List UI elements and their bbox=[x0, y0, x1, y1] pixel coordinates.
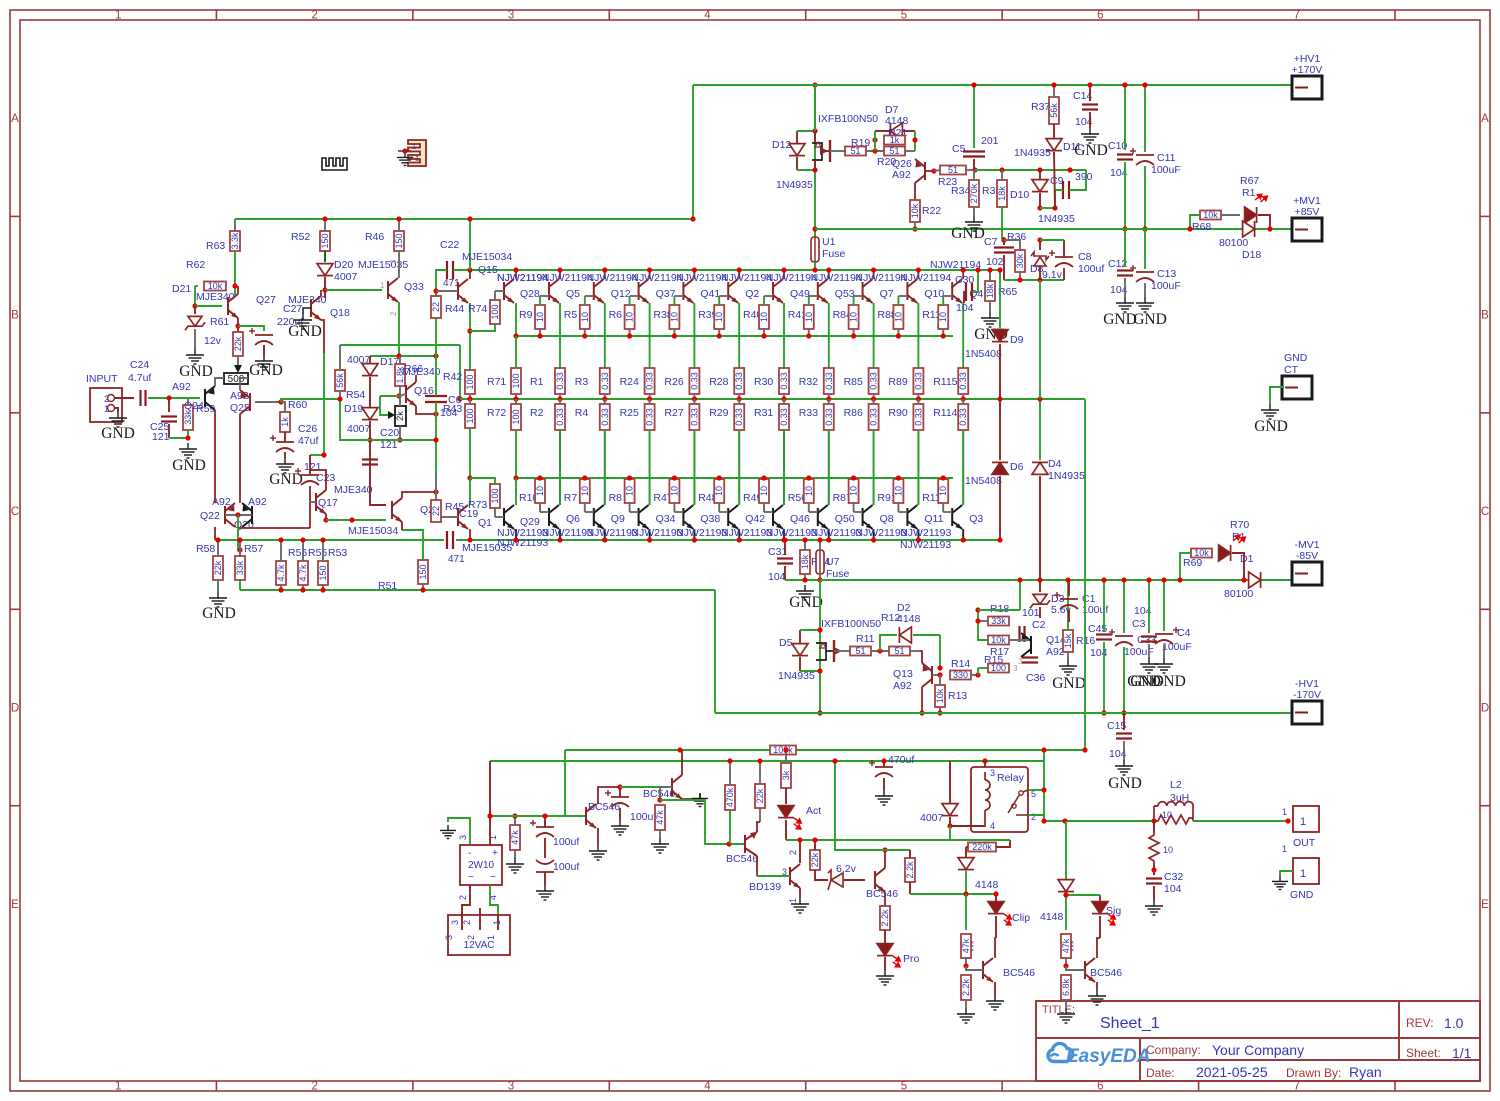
wire D17 top link y356 bbox=[370, 355, 436, 357]
svg-text:-170V: -170V bbox=[1293, 689, 1321, 701]
diode 80100 negative rail bbox=[1249, 572, 1261, 588]
svg-text:NJW21194: NJW21194 bbox=[542, 272, 593, 284]
svg-text:A92: A92 bbox=[893, 680, 912, 692]
wire Q50 collector bbox=[828, 529, 830, 540]
svg-text:R73: R73 bbox=[468, 499, 487, 511]
wire Q41 base stub bbox=[674, 295, 683, 297]
svg-text:47k: 47k bbox=[961, 938, 971, 953]
svg-text:Fuse: Fuse bbox=[826, 568, 850, 580]
svg-text:R34: R34 bbox=[951, 185, 970, 197]
wire node up bbox=[874, 131, 876, 151]
svg-text:Q37: Q37 bbox=[656, 288, 676, 300]
ground bbox=[981, 312, 999, 327]
svg-text:0.33: 0.33 bbox=[645, 408, 655, 426]
wire C8 top link bbox=[1040, 239, 1064, 241]
svg-text:100: 100 bbox=[465, 374, 475, 389]
svg-text:Q41: Q41 bbox=[700, 288, 720, 300]
wire Q53 emitter bbox=[828, 303, 830, 368]
svg-text:10: 10 bbox=[1162, 810, 1172, 820]
ground of R34 bbox=[973, 207, 975, 216]
ground of D21 bbox=[194, 329, 196, 349]
svg-text:R37: R37 bbox=[1031, 101, 1050, 113]
svg-text:Q9: Q9 bbox=[611, 513, 625, 525]
wire C9 left bbox=[1055, 190, 1063, 208]
svg-text:NJW21193: NJW21193 bbox=[676, 527, 727, 539]
wire Q29 collector bbox=[515, 529, 517, 540]
svg-text:100: 100 bbox=[490, 304, 500, 319]
wire BC546 clip emitter bbox=[994, 982, 996, 995]
svg-text:R29: R29 bbox=[709, 407, 728, 419]
svg-text:471: 471 bbox=[448, 554, 465, 565]
wire R23 to C5 node bbox=[966, 169, 975, 171]
svg-text:7: 7 bbox=[1294, 1081, 1300, 1093]
wire Q9 base stub bbox=[585, 511, 594, 513]
svg-text:2: 2 bbox=[1031, 812, 1036, 822]
svg-text:3.3k: 3.3k bbox=[230, 232, 240, 250]
wire y840 bbox=[786, 839, 950, 841]
svg-text:100uF: 100uF bbox=[1151, 164, 1181, 176]
wire D4 down to -85 rail bbox=[1039, 476, 1041, 580]
wire fuse to top bus bbox=[814, 262, 816, 270]
svg-text:1: 1 bbox=[492, 920, 502, 925]
svg-text:A92: A92 bbox=[172, 381, 191, 393]
svg-text:0.33: 0.33 bbox=[734, 408, 744, 426]
resistor R 3k bbox=[781, 763, 791, 788]
svg-text:0.33: 0.33 bbox=[869, 372, 879, 390]
svg-text:1: 1 bbox=[1282, 807, 1287, 817]
svg-text:33k: 33k bbox=[235, 560, 245, 575]
svg-text:R27: R27 bbox=[664, 407, 683, 419]
svg-text:10: 10 bbox=[804, 486, 814, 496]
wire gate return / +MV rail left part bbox=[815, 228, 1086, 230]
svg-text:10: 10 bbox=[938, 312, 948, 322]
wire Q23 collector link y440 bbox=[370, 439, 436, 441]
svg-text:Q8: Q8 bbox=[880, 513, 894, 525]
svg-text:22k: 22k bbox=[233, 336, 243, 351]
ground bbox=[1115, 760, 1133, 775]
svg-text:A92: A92 bbox=[248, 496, 267, 508]
svg-text:2: 2 bbox=[466, 935, 476, 940]
wire NPN base bus bbox=[516, 335, 953, 337]
svg-text:C: C bbox=[1481, 506, 1489, 518]
svg-text:4007: 4007 bbox=[920, 812, 944, 824]
svg-text:150: 150 bbox=[320, 233, 330, 248]
svg-text:104: 104 bbox=[1164, 883, 1182, 895]
wire R57 to y590 bus bbox=[239, 580, 241, 590]
wire Q38 emitter bbox=[693, 430, 695, 505]
svg-text:REV:: REV: bbox=[1406, 1016, 1434, 1030]
wire R54 column down to y440 bbox=[340, 399, 370, 440]
svg-text:104: 104 bbox=[768, 571, 786, 583]
svg-text:Q6: Q6 bbox=[566, 513, 580, 525]
wire C22 right bbox=[453, 269, 470, 271]
wire NPN collector top bus bbox=[470, 269, 1000, 271]
wire R74 bottom bbox=[470, 324, 495, 331]
svg-text:2: 2 bbox=[311, 1081, 317, 1093]
wire Q25 collector to Q20 emitter bbox=[239, 414, 241, 503]
svg-text:R42: R42 bbox=[443, 371, 462, 383]
wire Q18 col bbox=[324, 290, 326, 298]
wire Q38 base stub bbox=[674, 511, 683, 513]
svg-text:18k: 18k bbox=[800, 554, 810, 569]
wire 2W10 pins down to 12VAC bbox=[462, 885, 470, 915]
wire C6 column R44 bbox=[435, 318, 437, 396]
wire Q37 collector bbox=[649, 270, 651, 279]
svg-text:U7: U7 bbox=[826, 556, 840, 568]
svg-text:2.2k: 2.2k bbox=[905, 861, 915, 879]
ground bbox=[1136, 297, 1154, 312]
svg-text:R13: R13 bbox=[948, 690, 967, 702]
svg-text:R52: R52 bbox=[291, 231, 310, 243]
wire C9 right bbox=[1069, 170, 1086, 190]
wire R43 bottom to Q1 emitter bbox=[469, 428, 471, 478]
svg-text:R6: R6 bbox=[609, 309, 623, 321]
svg-text:R67: R67 bbox=[1240, 175, 1259, 187]
svg-text:NJW21194: NJW21194 bbox=[721, 272, 772, 284]
svg-text:470uf: 470uf bbox=[888, 754, 914, 766]
svg-text:R115: R115 bbox=[933, 376, 957, 388]
svg-text:+: + bbox=[492, 848, 498, 859]
svg-text:GND: GND bbox=[172, 457, 206, 474]
svg-text:150: 150 bbox=[418, 564, 428, 579]
wire Q9 emitter bbox=[604, 430, 606, 505]
wire BC546#2 emitter to gnd bbox=[682, 793, 700, 799]
svg-text:R55: R55 bbox=[308, 547, 327, 559]
ground bbox=[179, 443, 197, 458]
svg-text:GND: GND bbox=[1074, 142, 1108, 159]
wire C23 top to VAS node bbox=[310, 454, 324, 456]
svg-text:C8: C8 bbox=[1078, 251, 1092, 263]
ground bbox=[875, 790, 893, 805]
svg-text:R90: R90 bbox=[888, 407, 907, 419]
svg-text:10: 10 bbox=[535, 312, 545, 322]
svg-text:10: 10 bbox=[669, 312, 679, 322]
svg-text:R22: R22 bbox=[922, 205, 941, 217]
wire Q10 collector bbox=[917, 270, 919, 279]
svg-text:R8: R8 bbox=[609, 492, 623, 504]
svg-text:10: 10 bbox=[714, 486, 724, 496]
wire y816 bbox=[490, 815, 586, 817]
svg-text:4: 4 bbox=[990, 821, 995, 831]
svg-text:10: 10 bbox=[893, 312, 903, 322]
svg-text:R5: R5 bbox=[564, 309, 578, 321]
wire Q6 collector bbox=[559, 529, 561, 540]
ground bbox=[611, 820, 629, 835]
svg-text:C9: C9 bbox=[1050, 175, 1064, 187]
svg-text:INPUT: INPUT bbox=[86, 373, 118, 385]
wire Q13 base right bbox=[932, 674, 940, 676]
svg-text:R26: R26 bbox=[664, 376, 683, 388]
wire R42 to mid rail bbox=[469, 394, 471, 399]
svg-text:R14: R14 bbox=[951, 658, 970, 670]
svg-text:80100: 80100 bbox=[1224, 588, 1253, 600]
svg-text:C26: C26 bbox=[298, 423, 317, 435]
wire PNP collector bottom bus bbox=[465, 539, 1000, 541]
wire 2k wiper loop bbox=[380, 395, 399, 397]
svg-text:A: A bbox=[11, 113, 19, 125]
svg-text:R54: R54 bbox=[346, 389, 365, 401]
svg-text:Date:: Date: bbox=[1146, 1066, 1175, 1080]
svg-text:R74: R74 bbox=[468, 303, 487, 315]
svg-text:201: 201 bbox=[981, 135, 999, 147]
ground bbox=[294, 314, 312, 329]
svg-text:R62: R62 bbox=[186, 259, 205, 271]
wire 2.2k down to y894 bbox=[909, 882, 911, 894]
resistor R 2.2k clip bbox=[961, 975, 971, 1000]
wire BD139 emitter gnd bbox=[799, 888, 801, 898]
svg-text:Drawn By:: Drawn By: bbox=[1286, 1066, 1341, 1080]
ground of 2.2k clip bbox=[965, 1000, 967, 1008]
svg-text:D10: D10 bbox=[1010, 189, 1029, 201]
svg-text:NJW21193: NJW21193 bbox=[811, 527, 862, 539]
ground of Q18 base bbox=[303, 308, 311, 314]
wire mid-rail start bbox=[280, 398, 282, 402]
svg-text:2: 2 bbox=[389, 311, 398, 316]
svg-text:Q38: Q38 bbox=[700, 513, 720, 525]
wire CT to ground bbox=[1270, 387, 1284, 404]
wire Q26 emitter up bbox=[905, 150, 915, 152]
ground bbox=[440, 825, 456, 839]
wire BC546#4 emitter down bbox=[884, 892, 886, 906]
svg-text:0.33: 0.33 bbox=[779, 372, 789, 390]
svg-text:10k: 10k bbox=[1194, 548, 1209, 558]
svg-text:1N5408: 1N5408 bbox=[965, 348, 1002, 360]
wire y750 horizontal bbox=[565, 749, 1085, 751]
wire R61 to trimmer wiper bbox=[237, 356, 239, 367]
wire Q17 base stub bbox=[310, 501, 316, 503]
wire R69 left bbox=[1180, 553, 1191, 580]
wire D12 top/bottom to mosfet bbox=[797, 130, 815, 132]
wire Q28 base stub bbox=[495, 290, 504, 292]
svg-text:R57: R57 bbox=[244, 543, 263, 555]
svg-text:2.2k: 2.2k bbox=[961, 978, 971, 996]
svg-text:R36: R36 bbox=[1007, 231, 1026, 243]
ground of C26 bbox=[284, 452, 286, 458]
svg-text:R3: R3 bbox=[575, 376, 589, 388]
svg-text:OUT: OUT bbox=[1293, 837, 1316, 849]
wire Q28 collector bbox=[515, 270, 517, 279]
svg-text:18k: 18k bbox=[985, 283, 995, 298]
wire Q42 base stub bbox=[719, 511, 728, 513]
wire output mid rail left segment bbox=[281, 398, 340, 400]
wire R11 to node bbox=[871, 650, 889, 652]
wire Q38 collector bbox=[693, 529, 695, 540]
ground bbox=[536, 885, 554, 900]
wire C20 bottom to Q23 base bbox=[370, 470, 386, 505]
resistor R 22k vas bbox=[810, 850, 820, 870]
wire BC546#4 collector up bbox=[884, 850, 886, 868]
wire Q20 collector down bbox=[240, 527, 310, 528]
wire Q28 emitter to base bus bbox=[515, 303, 517, 336]
wire R74 top to Q28 base bbox=[494, 291, 496, 300]
wire Q53 collector bbox=[828, 270, 830, 279]
svg-text:1: 1 bbox=[115, 10, 121, 22]
wire Q27 collector bbox=[237, 286, 239, 294]
wire C24 to node bbox=[148, 397, 200, 399]
svg-text:R72: R72 bbox=[487, 407, 506, 419]
wire C30 right up to bus bbox=[972, 270, 978, 292]
svg-text:Q53: Q53 bbox=[835, 288, 855, 300]
svg-text:10k: 10k bbox=[910, 203, 920, 218]
wire Q8 base stub bbox=[854, 511, 863, 513]
wire Q27 emitter to node bbox=[237, 318, 239, 332]
svg-text:22k: 22k bbox=[213, 560, 223, 575]
wire D2 right down bbox=[939, 635, 941, 668]
resistor R 22k bottom bbox=[755, 784, 765, 808]
svg-text:330: 330 bbox=[953, 670, 968, 680]
svg-text:R33: R33 bbox=[799, 407, 818, 419]
svg-text:IXFB100N50: IXFB100N50 bbox=[818, 113, 878, 125]
svg-text:R4: R4 bbox=[575, 407, 589, 419]
svg-text:56k: 56k bbox=[1049, 103, 1059, 118]
svg-text:10: 10 bbox=[625, 486, 635, 496]
svg-text:Act: Act bbox=[806, 805, 821, 817]
svg-text:1: 1 bbox=[486, 935, 496, 940]
svg-text:R25: R25 bbox=[620, 407, 639, 419]
wire L2 to OUT bbox=[1193, 820, 1288, 822]
wire R21/D7 right join bbox=[914, 131, 916, 151]
svg-text:~: ~ bbox=[468, 872, 474, 883]
svg-text:+170V: +170V bbox=[1292, 64, 1323, 76]
wire Q29 emitter to base bus bbox=[515, 478, 517, 505]
svg-text:C4: C4 bbox=[1177, 627, 1191, 639]
wire Q15 emitter down bbox=[469, 303, 471, 370]
svg-text:3: 3 bbox=[508, 1081, 514, 1093]
svg-text:R61: R61 bbox=[210, 316, 229, 328]
wire Q33 collector bbox=[398, 251, 400, 278]
svg-text:GND: GND bbox=[789, 594, 823, 611]
svg-text:Relay: Relay bbox=[997, 772, 1025, 784]
svg-text:R60: R60 bbox=[288, 399, 307, 411]
svg-text:NJW21194: NJW21194 bbox=[930, 259, 981, 271]
svg-text:D: D bbox=[1481, 703, 1489, 715]
svg-text:C: C bbox=[11, 506, 19, 518]
svg-text:1: 1 bbox=[415, 154, 419, 163]
wire Q37 emitter bbox=[649, 303, 651, 368]
svg-text:1k: 1k bbox=[890, 135, 900, 145]
wire D18 right join bbox=[1258, 215, 1270, 229]
svg-text:Q13: Q13 bbox=[893, 668, 913, 680]
svg-text:R44: R44 bbox=[445, 303, 464, 315]
wire right drop x460 to mid rail bbox=[459, 345, 461, 399]
svg-text:3k: 3k bbox=[781, 770, 791, 780]
wire LED right bbox=[1232, 553, 1244, 580]
ground bbox=[651, 838, 669, 853]
svg-text:GND: GND bbox=[288, 323, 322, 340]
wire D20 to node bbox=[324, 277, 326, 290]
svg-text:100uF: 100uF bbox=[1162, 641, 1192, 653]
svg-text:150: 150 bbox=[394, 233, 404, 248]
svg-text:R28: R28 bbox=[709, 376, 728, 388]
wire Q23 emitter to R51 bbox=[401, 522, 403, 530]
svg-text:100: 100 bbox=[991, 663, 1006, 673]
svg-text:0.33: 0.33 bbox=[600, 408, 610, 426]
wire R63 to node bbox=[234, 251, 236, 295]
wire R73 top bbox=[470, 478, 495, 484]
resistor R 2.2k act2 bbox=[905, 858, 915, 882]
svg-text:Q42: Q42 bbox=[745, 513, 765, 525]
svg-text:R86: R86 bbox=[844, 407, 863, 419]
wire y280 down to D4 column bbox=[1039, 280, 1041, 399]
svg-text:GND: GND bbox=[202, 605, 236, 622]
wire R19 to node bbox=[866, 150, 884, 152]
svg-text:R45: R45 bbox=[445, 501, 464, 513]
svg-text:0.33: 0.33 bbox=[958, 408, 968, 426]
wire Q22-Q20 base join bbox=[225, 514, 252, 516]
svg-text:C3: C3 bbox=[1132, 618, 1146, 630]
svg-text:R11: R11 bbox=[856, 633, 875, 645]
wire Q42 collector bbox=[738, 529, 740, 540]
wire 47k to base node bbox=[965, 958, 967, 966]
wire Q34 base stub bbox=[630, 511, 639, 513]
svg-text:~: ~ bbox=[490, 872, 496, 883]
wire relay coil bottom bbox=[950, 825, 985, 827]
svg-text:3: 3 bbox=[990, 768, 995, 778]
svg-text:47k: 47k bbox=[1061, 938, 1071, 953]
svg-text:0.33: 0.33 bbox=[734, 372, 744, 390]
wire y850 wire bbox=[835, 761, 910, 850]
svg-text:7: 7 bbox=[1294, 10, 1300, 22]
ground bbox=[1272, 876, 1288, 890]
svg-text:10: 10 bbox=[1163, 845, 1173, 855]
svg-text:C7: C7 bbox=[984, 236, 998, 248]
bridge 2W10 bbox=[460, 845, 502, 885]
svg-text:100uf: 100uf bbox=[553, 836, 579, 848]
wire Q4 base stub bbox=[943, 295, 952, 297]
svg-text:Q28: Q28 bbox=[520, 288, 540, 300]
title block bbox=[1036, 1001, 1480, 1081]
wire Q17 node to Q23 bbox=[326, 519, 386, 521]
wire BC546 sig emitter bbox=[1096, 982, 1098, 990]
svg-text:3: 3 bbox=[450, 920, 460, 925]
wire Q29 base stub bbox=[495, 516, 504, 518]
svg-text:D6: D6 bbox=[1010, 461, 1024, 473]
wire output mid rail bbox=[460, 398, 1085, 400]
svg-text:6: 6 bbox=[1097, 10, 1103, 22]
svg-text:NJW21194: NJW21194 bbox=[900, 272, 951, 284]
ground bbox=[209, 592, 227, 607]
ground of INPUT shield bbox=[114, 408, 118, 412]
wire BC546#2 collector up to y750 bbox=[681, 750, 683, 775]
wire Q49 emitter bbox=[783, 303, 785, 368]
wire Q4 collector bbox=[962, 270, 964, 279]
wire Q11 base stub bbox=[898, 511, 907, 513]
wire Q46 emitter bbox=[783, 430, 785, 505]
svg-text:MJE15034: MJE15034 bbox=[348, 525, 398, 537]
svg-text:0.33: 0.33 bbox=[645, 372, 655, 390]
svg-text:GND: GND bbox=[1290, 889, 1314, 901]
svg-text:GND: GND bbox=[1130, 673, 1164, 690]
svg-text:47k: 47k bbox=[655, 810, 665, 825]
svg-text:Q17: Q17 bbox=[318, 497, 338, 509]
svg-text:R69: R69 bbox=[1183, 557, 1202, 569]
wire R68 left leg bbox=[1190, 215, 1200, 229]
svg-text:121: 121 bbox=[380, 439, 398, 451]
wire Q34 emitter bbox=[649, 430, 651, 505]
svg-text:100uf: 100uf bbox=[553, 861, 579, 873]
capacitor C19 471 bbox=[444, 533, 456, 547]
svg-text:R32: R32 bbox=[799, 376, 818, 388]
svg-text:R114: R114 bbox=[933, 407, 957, 419]
svg-text:C32: C32 bbox=[1164, 871, 1183, 883]
svg-text:Q11: Q11 bbox=[924, 513, 943, 525]
svg-text:2W10: 2W10 bbox=[468, 860, 495, 871]
svg-text:100: 100 bbox=[490, 488, 500, 503]
wire R52 to D20 bbox=[324, 251, 326, 262]
wire top-left bus drop to Q15 bbox=[469, 219, 471, 270]
wire R16 top bbox=[1067, 580, 1069, 630]
svg-text:MJE340: MJE340 bbox=[334, 484, 373, 496]
